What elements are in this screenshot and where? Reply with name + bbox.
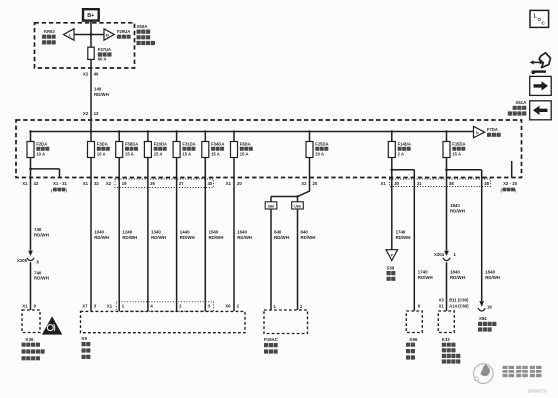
in-line connector X205 bbox=[27, 251, 34, 261]
svg-text:1740: 1740 bbox=[396, 230, 406, 235]
pins X7 3 at BCM bbox=[82, 304, 97, 309]
junction bus / fuse F14DA bbox=[391, 130, 393, 132]
noise suppressor U86 (right) bbox=[292, 202, 304, 209]
svg-text:X2: X2 bbox=[83, 111, 89, 116]
svg-text:X50A: X50A bbox=[137, 24, 149, 29]
wire 1740 RD/WH to ignition switch bbox=[391, 178, 393, 250]
svg-text:RD/WH: RD/WH bbox=[94, 92, 109, 97]
label K96 theft deterrent module bbox=[406, 337, 418, 360]
svg-text:15 A: 15 A bbox=[240, 152, 249, 157]
svg-text:RD/WH: RD/WH bbox=[450, 275, 465, 280]
svg-text:X1: X1 bbox=[439, 303, 445, 308]
svg-text:L: L bbox=[534, 13, 537, 19]
wire stub bus to fuse F14DA bbox=[391, 132, 393, 142]
svg-text:F31DA: F31DA bbox=[182, 141, 195, 146]
HVAC control module K33 dashed box bbox=[438, 311, 454, 333]
label X51A instrument panel fuse block bbox=[508, 100, 527, 115]
wire 1840 RD/WH after X204 bbox=[446, 262, 448, 311]
svg-text:RD/WH: RD/WH bbox=[180, 235, 195, 240]
svg-text:U86: U86 bbox=[294, 204, 301, 208]
data link connector X84 half connector bbox=[478, 301, 485, 311]
wire fuse F14DA output bbox=[391, 158, 393, 178]
wire stub unused pin X2-15 bbox=[511, 161, 513, 178]
svg-text:KR63: KR63 bbox=[44, 29, 55, 34]
body control module K9 dashed box bbox=[81, 311, 246, 332]
junction F15DA split bbox=[445, 169, 448, 172]
svg-text:RD/WH: RD/WH bbox=[237, 235, 252, 240]
fuse F20DA 15 A bbox=[144, 142, 151, 158]
wire fuse F58DA output bbox=[118, 158, 120, 178]
label X204 pin 1 bbox=[434, 252, 457, 257]
svg-text:X1: X1 bbox=[22, 181, 28, 186]
fuse F14DA 2 A bbox=[388, 142, 395, 158]
label fuse F58DA 15 A bbox=[125, 141, 138, 156]
junction bus / fuse F2DA bbox=[29, 130, 31, 132]
wire internal horizontal in X50A bbox=[74, 34, 104, 36]
label fuse F25DA 20 A bbox=[315, 141, 328, 156]
svg-text:16: 16 bbox=[487, 305, 492, 310]
svg-text:M: M bbox=[106, 33, 109, 37]
svg-text:26: 26 bbox=[150, 181, 155, 186]
instrument panel fuse block X51A dashed outline bbox=[16, 120, 522, 178]
svg-text:20 A: 20 A bbox=[315, 152, 324, 157]
junction bus / fuse F20DA bbox=[147, 130, 149, 132]
label fuse F20DA 15 A bbox=[154, 141, 167, 156]
fuse F34DA 15 A bbox=[202, 142, 209, 158]
fuse F3DA 10 A bbox=[88, 142, 95, 158]
svg-text:X1 - 31: X1 - 31 bbox=[53, 181, 67, 186]
pin labels along fuse block bottom edge bbox=[22, 181, 517, 186]
label 640 RD/WH (right) bbox=[301, 230, 316, 240]
wire stub bus to fuse F20DA bbox=[147, 132, 149, 142]
pin 2 at BCM bbox=[179, 304, 182, 309]
fuse F2DA 10 A bbox=[27, 142, 34, 158]
svg-text:1440: 1440 bbox=[180, 230, 190, 235]
label fuse F14DA 2 A bbox=[398, 141, 411, 156]
wire branch F14DA to pins 30/31 bbox=[392, 170, 415, 178]
relay KR63 off-page triangle (left) bbox=[64, 29, 75, 40]
svg-text:1840: 1840 bbox=[450, 270, 460, 275]
wire stub bus to fuse F6DA bbox=[233, 132, 235, 142]
svg-text:31: 31 bbox=[417, 181, 422, 186]
fuse F29UA off-page triangle (right) bbox=[104, 29, 114, 40]
svg-text:X1: X1 bbox=[107, 304, 113, 309]
label 1440 RD/WH bbox=[180, 230, 195, 240]
label fuse F2DA 10 A bbox=[36, 141, 49, 156]
label 1840 RD/WH (lower) bbox=[450, 270, 465, 280]
label 1340 RD/WH bbox=[151, 230, 166, 240]
svg-text:1540: 1540 bbox=[209, 230, 219, 235]
watermark text 技师帮 bbox=[503, 366, 542, 377]
svg-text:F15DA: F15DA bbox=[452, 141, 465, 146]
label X50A underhood fuse block bbox=[137, 24, 156, 45]
svg-text:140: 140 bbox=[94, 87, 102, 92]
junction bus / fuse F15DA bbox=[445, 130, 447, 132]
wire fuse F6DA output bbox=[233, 158, 235, 178]
svg-text:RD/WH: RD/WH bbox=[450, 209, 465, 214]
svg-text:1240: 1240 bbox=[122, 230, 132, 235]
svg-text:F14DA: F14DA bbox=[398, 141, 411, 146]
connector group X1 pins dotted outline at BCM bbox=[116, 302, 213, 311]
svg-text:15 A: 15 A bbox=[154, 152, 163, 157]
svg-text:1340: 1340 bbox=[151, 230, 161, 235]
svg-text:X205: X205 bbox=[17, 258, 28, 263]
pin 3 at BCM bbox=[208, 304, 211, 309]
svg-text:RD/WH: RD/WH bbox=[485, 275, 500, 280]
svg-text:X1: X1 bbox=[22, 304, 28, 309]
label fuse F34DA 15 A bbox=[211, 141, 224, 156]
wire 1840 RD/WH to data link connector bbox=[481, 178, 483, 307]
label 1240 RD/WH bbox=[122, 230, 137, 240]
fuse F7DA off-page triangle bbox=[474, 126, 485, 137]
wire stub bus to fuse F2DA bbox=[30, 132, 32, 142]
wire branch F15DA to pins 38/48 bbox=[447, 170, 482, 178]
noise suppressor U86 (left) bbox=[265, 202, 277, 209]
svg-text:X84: X84 bbox=[479, 316, 487, 321]
svg-text:42: 42 bbox=[34, 181, 39, 186]
label K36 airbag sensing and diagnostic module bbox=[22, 337, 45, 361]
subwoofer speaker P19AC dashed box bbox=[264, 310, 308, 334]
svg-text:10 A: 10 A bbox=[97, 152, 106, 157]
svg-text:B+: B+ bbox=[87, 13, 94, 19]
battery B+ terminal bbox=[83, 9, 99, 20]
pin X2 13 at fuse block entry bbox=[83, 111, 99, 116]
wire stub bus to fuse F58DA bbox=[118, 132, 120, 142]
wire stub bus to fuse F31DA bbox=[176, 132, 178, 142]
wire 740 RD/WH after X205 bbox=[30, 262, 32, 310]
svg-text:F29UA: F29UA bbox=[117, 29, 130, 34]
wire 1540 RD/WH to body control module bbox=[204, 178, 206, 312]
label F27UA 60A bbox=[98, 47, 112, 62]
svg-text:B11 (C60): B11 (C60) bbox=[449, 298, 469, 303]
connector group X1 pins 30-48 dotted outline bbox=[390, 179, 491, 187]
pin X1 9 at K36 bbox=[22, 304, 36, 309]
svg-text:27: 27 bbox=[179, 181, 184, 186]
label unused X1-31 bbox=[51, 187, 68, 192]
svg-text:X2: X2 bbox=[83, 71, 89, 76]
label P19AC subwoofer speaker bbox=[264, 337, 278, 353]
junction 740 wire / X1-31 stub bbox=[29, 168, 32, 171]
svg-text:19: 19 bbox=[122, 181, 127, 186]
svg-text:K33: K33 bbox=[442, 337, 450, 342]
svg-text:F34DA: F34DA bbox=[211, 141, 224, 146]
svg-text:20: 20 bbox=[237, 181, 242, 186]
wire fuse F34DA output bbox=[204, 158, 206, 178]
svg-text:1640: 1640 bbox=[237, 230, 247, 235]
svg-text:X7: X7 bbox=[82, 304, 88, 309]
wire fuse F15DA output bbox=[446, 158, 448, 178]
label 1040 RD/WH bbox=[94, 230, 109, 240]
wire 640 RD/WH from pin X2-20 with jog bbox=[271, 178, 310, 197]
junction bus / fuse F25DA bbox=[308, 130, 310, 132]
off-page triangle S39 ignition switch bbox=[386, 250, 398, 261]
svg-text:F25DA: F25DA bbox=[315, 141, 328, 146]
icon forward arrow box bbox=[530, 76, 552, 95]
svg-text:X204: X204 bbox=[434, 252, 445, 257]
wire fuse F25DA output bbox=[309, 158, 311, 178]
icon LOC box bbox=[530, 10, 549, 27]
wire branch to unused pin X1-31 bbox=[31, 169, 60, 178]
label 1740 RD/WH (pin31) bbox=[418, 270, 433, 280]
svg-text:13: 13 bbox=[94, 111, 99, 116]
fuse F6DA 15 A bbox=[231, 142, 238, 158]
svg-text:32: 32 bbox=[94, 181, 99, 186]
label 1540 RD/WH bbox=[209, 230, 224, 240]
wire fuse F20DA output bbox=[147, 158, 149, 178]
document number 2409970J bbox=[528, 388, 547, 393]
label 740 RD/WH (lower) bbox=[34, 270, 49, 280]
label 640 RD/WH (left) bbox=[274, 230, 289, 240]
svg-text:RD/WH: RD/WH bbox=[34, 276, 49, 281]
svg-text:F7DA: F7DA bbox=[487, 127, 498, 132]
svg-text:F3DA: F3DA bbox=[97, 141, 108, 146]
label 740 RD/WH bbox=[34, 227, 49, 237]
pin 4 at BCM bbox=[150, 304, 153, 309]
label S39 ignition switch bbox=[387, 265, 396, 281]
svg-text:F58DA: F58DA bbox=[125, 141, 138, 146]
wire 1440 RD/WH to body control module bbox=[176, 178, 178, 312]
wire stub bus to fuse F3DA bbox=[90, 132, 92, 142]
label K33 HVAC control module bbox=[442, 337, 461, 364]
wire B+ feed down to bus bbox=[90, 21, 92, 132]
svg-text:2409970J: 2409970J bbox=[528, 388, 547, 393]
svg-text:A14 (C66): A14 (C66) bbox=[449, 303, 469, 308]
svg-text:X1: X1 bbox=[381, 181, 387, 186]
svg-text:15 A: 15 A bbox=[182, 152, 191, 157]
fuse F25DA 20 A bbox=[306, 142, 313, 158]
label 1740 RD/WH bbox=[396, 230, 411, 240]
svg-text:X2: X2 bbox=[301, 181, 307, 186]
label fuse F6DA 15 A bbox=[240, 141, 253, 156]
wire label 140 RD/WH bbox=[94, 87, 109, 97]
label X84 pin 16 bbox=[487, 305, 492, 310]
pin X2 46 at X50A exit bbox=[83, 71, 99, 76]
wire fuse F2DA output bbox=[30, 158, 32, 178]
fuse F27UA 60A bbox=[88, 47, 94, 59]
underhood fuse block X50A dashed outline bbox=[35, 23, 135, 68]
junction bus / fuse F6DA bbox=[233, 130, 235, 132]
wire 740 RD/WH circuit to K36 bbox=[30, 178, 32, 251]
svg-text:RD/WH: RD/WH bbox=[122, 235, 137, 240]
svg-text:X2 - 15: X2 - 15 bbox=[503, 181, 517, 186]
svg-text:740: 740 bbox=[34, 227, 42, 232]
svg-text:640: 640 bbox=[274, 230, 282, 235]
wire 1840 RD/WH to HVAC module bbox=[446, 178, 448, 251]
airbag warning triangle bbox=[42, 316, 62, 334]
svg-text:K36: K36 bbox=[26, 337, 34, 342]
svg-text:RD/WH: RD/WH bbox=[301, 235, 316, 240]
pin 6 at theft module bbox=[418, 304, 421, 309]
svg-text:RD/WH: RD/WH bbox=[209, 235, 224, 240]
pin 1 at subwoofer bbox=[274, 304, 277, 309]
label 1840 RD/WH (DLC branch) bbox=[485, 270, 500, 280]
wire 1040 RD/WH to body control module bbox=[90, 178, 92, 312]
svg-text:48: 48 bbox=[484, 181, 489, 186]
fuse F15DA 15 A bbox=[443, 142, 450, 158]
junction bus / fuse F34DA bbox=[204, 130, 206, 132]
svg-text:15 A: 15 A bbox=[211, 152, 220, 157]
pins X1 1 at BCM bbox=[107, 304, 125, 309]
label X205 pin 6 bbox=[17, 258, 40, 265]
svg-text:10 A: 10 A bbox=[36, 152, 45, 157]
svg-text:F20DA: F20DA bbox=[154, 141, 167, 146]
wire 1240 RD/WH to body control module bbox=[118, 178, 120, 312]
wire 640 RD/WH branch 2 bbox=[297, 197, 299, 311]
junction F14DA split bbox=[391, 169, 394, 172]
label F7DA fuse bbox=[487, 127, 501, 137]
svg-text:46: 46 bbox=[94, 71, 99, 76]
pins X3 B11 (C60) at HVAC bbox=[439, 298, 469, 303]
label 1840 RD/WH (upper) bbox=[450, 203, 465, 213]
svg-text:RD/WH: RD/WH bbox=[94, 235, 109, 240]
svg-text:RD/WH: RD/WH bbox=[34, 233, 49, 238]
svg-text:K96: K96 bbox=[410, 337, 418, 342]
junction bus / fuse F3DA bbox=[90, 130, 92, 132]
fuse F31DA 15 A bbox=[173, 142, 180, 158]
wire fuse F3DA output bbox=[90, 158, 92, 178]
svg-text:38: 38 bbox=[449, 181, 454, 186]
svg-text:U86: U86 bbox=[268, 204, 275, 208]
connector group X2 pins 19-40 dotted outline bbox=[115, 179, 214, 188]
wire 1740 RD/WH to theft module bbox=[413, 178, 415, 312]
icon back arrow box bbox=[530, 101, 552, 120]
svg-text:K9: K9 bbox=[82, 336, 88, 341]
label X84 data link connector bbox=[478, 316, 496, 331]
label K9 body control module bbox=[82, 336, 91, 359]
junction at B+ wire / relay branch bbox=[90, 33, 93, 36]
svg-text:X6: X6 bbox=[225, 304, 231, 309]
wire 1640 RD/WH to body control module bbox=[233, 178, 235, 312]
pin 2 at subwoofer bbox=[300, 304, 303, 309]
wire stub bus to fuse F15DA bbox=[446, 132, 448, 142]
svg-text:1840: 1840 bbox=[485, 270, 495, 275]
svg-text:20: 20 bbox=[313, 181, 318, 186]
label unused X2-15 bbox=[501, 187, 518, 192]
wire 1340 RD/WH to body control module bbox=[147, 178, 149, 312]
svg-text:X1: X1 bbox=[83, 181, 89, 186]
svg-text:S39: S39 bbox=[387, 265, 395, 270]
label fuse F15DA 15 A bbox=[452, 141, 465, 156]
junction bus / fuse F31DA bbox=[175, 130, 177, 132]
svg-text:RD/WH: RD/WH bbox=[396, 235, 411, 240]
junction 640 split bbox=[296, 195, 299, 198]
svg-text:P19AC: P19AC bbox=[264, 337, 278, 342]
svg-text:640: 640 bbox=[301, 230, 309, 235]
label F29UA fuse bbox=[117, 29, 131, 39]
wire stub bus to fuse F34DA bbox=[204, 132, 206, 142]
svg-text:1840: 1840 bbox=[450, 203, 460, 208]
svg-text:15 A: 15 A bbox=[452, 152, 461, 157]
icon swap arrows bbox=[530, 53, 551, 74]
svg-text:740: 740 bbox=[34, 270, 42, 275]
fuse F58DA 15 A bbox=[116, 142, 123, 158]
svg-text:X3: X3 bbox=[439, 298, 445, 303]
svg-text:F2DA: F2DA bbox=[36, 141, 47, 146]
svg-text:L: L bbox=[69, 33, 71, 37]
theft deterrent module K96 dashed box bbox=[406, 311, 422, 333]
svg-text:60 A: 60 A bbox=[98, 57, 107, 62]
wire stub bus to fuse F25DA bbox=[309, 132, 311, 142]
svg-text:40: 40 bbox=[208, 181, 213, 186]
svg-text:RD/WH: RD/WH bbox=[418, 275, 433, 280]
svg-text:X2: X2 bbox=[106, 181, 112, 186]
wire fuse F31DA output bbox=[176, 158, 178, 178]
svg-text:F6DA: F6DA bbox=[240, 141, 251, 146]
junction bus / fuse F58DA bbox=[118, 130, 120, 132]
svg-text:RD/WH: RD/WH bbox=[274, 235, 289, 240]
svg-text:2 A: 2 A bbox=[398, 152, 404, 157]
svg-text:F27UA: F27UA bbox=[98, 47, 111, 52]
airbag module K36 dashed box bbox=[22, 310, 40, 333]
svg-text:30: 30 bbox=[394, 181, 399, 186]
in-line connector X204 bbox=[443, 251, 450, 261]
svg-text:1740: 1740 bbox=[418, 270, 428, 275]
svg-text:15 A: 15 A bbox=[125, 152, 134, 157]
bus wire from entry across fuse block bbox=[31, 131, 474, 133]
label KR63 relay bbox=[42, 29, 56, 45]
label fuse F3DA 10 A bbox=[97, 141, 110, 156]
svg-text:1040: 1040 bbox=[94, 230, 104, 235]
label fuse F31DA 15 A bbox=[182, 141, 195, 156]
svg-text:RD/WH: RD/WH bbox=[151, 235, 166, 240]
svg-text:X1: X1 bbox=[226, 181, 232, 186]
pins X1 A14 (C66) at HVAC bbox=[439, 303, 470, 308]
wire 640 RD/WH branch 1 bbox=[270, 197, 272, 311]
svg-text:X51A: X51A bbox=[515, 100, 527, 105]
watermark logo circle bbox=[474, 364, 494, 384]
pins X6 2 at BCM bbox=[225, 304, 240, 309]
label 1640 RD/WH bbox=[237, 230, 252, 240]
